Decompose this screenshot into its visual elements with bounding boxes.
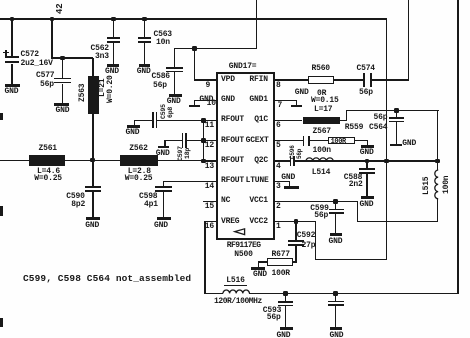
capacitor C595 6p8 (pin 11 series to gnd) (134, 120, 153, 121)
ground C562 (107, 64, 119, 67)
capacitor C588 2n2 (366, 161, 367, 169)
capacitor (unlabelled) (335, 294, 336, 301)
node C588 tap (365, 159, 370, 164)
pin label LTUNE (246, 177, 269, 185)
wire rail branch down at x52 (51, 19, 52, 58)
note text (23, 275, 191, 283)
capacitor C596 56p (series pin4) (290, 156, 291, 166)
pin label Q2C (254, 157, 268, 165)
inductor L516 120R/100MHz (223, 288, 250, 294)
ground C572 (5, 84, 20, 87)
inductor Z561 L=4.6 W=0.25 (29, 155, 65, 165)
pin 2 wire VCC1 (275, 201, 359, 202)
pin label VPD (221, 76, 235, 84)
resistor R560 0R (308, 76, 334, 84)
pin label VCC1 (249, 197, 267, 205)
ground C590 (86, 217, 100, 220)
wire VPD net vertical to top edge (256, 0, 257, 48)
ground C598 (157, 217, 171, 220)
pin 8 wire RFIN (275, 79, 308, 80)
resistor R559 100R (328, 137, 355, 144)
ground C597 (164, 140, 165, 146)
capacitor C563 10n (144, 19, 145, 38)
net label 42 (rotated, clipped at top) (56, 4, 64, 14)
pin label VREG (221, 218, 239, 226)
pin 6 wire Q1C (275, 120, 303, 121)
wire R559 to gnd (355, 140, 369, 141)
pin 11 stub (203, 120, 216, 121)
wire C564 corner down to L515 (437, 110, 438, 170)
ground R677 (251, 267, 264, 270)
pin 1 wire VCC2 (275, 221, 316, 222)
pin label RFOUT 14 (221, 177, 244, 185)
wire VCC1 corner down (357, 201, 358, 221)
pin label GCEXT (246, 137, 269, 145)
ground C593 (280, 327, 293, 330)
pin 10 stub with ground (194, 100, 216, 101)
node C599 tap (333, 199, 338, 204)
node C564 tap (394, 108, 399, 113)
capacitor C599 56p (335, 202, 336, 210)
pin label RFOUT 11 (221, 116, 244, 124)
wire Q1C node horizontal y110 (346, 110, 439, 111)
wire pin4 line to L515 (295, 160, 439, 161)
pin 7 stub GND1 (275, 100, 297, 101)
wire C592 bottom to R677 (293, 261, 297, 262)
ground C595 (134, 120, 135, 126)
ground C563 (139, 64, 151, 67)
pin 12 stub (203, 140, 216, 141)
wire Z567 jog up (340, 120, 348, 121)
wire left rf line (0, 160, 29, 161)
wire R560 to C574 (334, 79, 363, 80)
wire VCC2 horizontal y260 (315, 259, 387, 260)
pin 4 wire Q2C (275, 160, 291, 161)
node pin11 (201, 118, 206, 123)
wire right edge riser x458 (457, 0, 459, 294)
wire C574 to corner up (372, 79, 409, 80)
capacitor C597 18p (pin 12 series to gnd) (164, 140, 183, 141)
wire top supply rail (0, 18, 387, 20)
pin label VCC2 (249, 218, 267, 226)
wire horizontal y58 (51, 57, 93, 58)
inductor L515 100n (vertical) (433, 170, 439, 200)
capacitor 100n (series pin5) (303, 136, 305, 147)
node pin12 (201, 138, 206, 143)
wire bottom rail left of L516 (204, 293, 223, 294)
edge smudge marks (0, 113, 3, 120)
pin label RFIN (249, 76, 267, 84)
pin label Q1C (254, 116, 268, 124)
node C592 tap (294, 219, 299, 224)
wire R677 left to gnd (258, 261, 268, 262)
capacitor C562 3n3 (113, 19, 114, 38)
pin label NC (221, 197, 230, 205)
pin 9 stub (194, 79, 216, 80)
ground C588 (361, 196, 374, 199)
wire VPD down to pin 9 (194, 48, 195, 80)
node rail-C563 (142, 17, 147, 22)
pin label RFOUT 13 (221, 157, 244, 165)
ground pin3 (289, 181, 290, 187)
ground C586 (169, 94, 181, 97)
wire cap to R559 (310, 140, 328, 141)
inductor L514 (306, 156, 334, 162)
ground cap2 (330, 327, 342, 330)
wire L515 bottom (437, 198, 438, 222)
pin 3 stub LTUNE (275, 181, 291, 182)
wire VPD net horizontal y48 (174, 48, 257, 49)
wire VCC1 horizontal y221 to L515 bottom (357, 221, 438, 222)
node C577 tap (60, 56, 65, 61)
node pin13 (201, 159, 206, 164)
capacitor C586 56p (174, 48, 175, 67)
wire Z561 to junction (65, 160, 120, 161)
node rail-C562 (111, 17, 116, 22)
node Z561-Z562-C590 (90, 158, 95, 163)
capacitor C593 56p (285, 294, 286, 301)
pin 13 stub (203, 160, 216, 161)
node pin4-vcc vertical crossing (384, 159, 389, 164)
wire RFIN riser to top edge (408, 0, 409, 81)
wire bottom rail (249, 293, 459, 294)
node rail-branch42 (50, 17, 55, 22)
inductor Z563 L=21 W=0.20 (vertical strip) (88, 76, 99, 114)
capacitor C590 8p2 (92, 161, 93, 187)
op-amp U1 : IC N500 RF9117 body (216, 72, 275, 240)
capacitor C572 2u2_16V electrolytic (11, 19, 12, 57)
wire RFOUT bus 11-12-13 (203, 120, 204, 162)
node C593 tap (283, 291, 288, 296)
pin 5 stub GCEXT (275, 140, 304, 141)
pin label RFOUT 12 (221, 137, 244, 145)
inductor Z562 L=2.8 W=0.25 (120, 155, 157, 165)
wire Z562 to pin 13 (158, 160, 204, 161)
node bottom cap2 tap (333, 291, 338, 296)
pin 16 wire (204, 221, 215, 222)
ground C599 (330, 233, 342, 236)
wire VREG corner down x205 (204, 221, 205, 294)
pin 1 indicator triangle (234, 228, 246, 236)
capacitor C577 56p (62, 58, 63, 78)
node VPD branch (192, 46, 197, 51)
ground C564 (390, 144, 402, 147)
pin 14 wire (163, 181, 216, 182)
resistor R677 100R (267, 258, 293, 266)
node rail-C572 (10, 17, 15, 22)
ground C577 (54, 103, 69, 106)
capacitor C598 4p1 (pin 14 to gnd) (163, 181, 164, 187)
inductor Z567 W=0.15 L=17 (303, 117, 340, 124)
wire Z563 bottom to junction (92, 114, 93, 162)
wire VCC riser x386 (rail to y260) (386, 19, 387, 261)
wire VCC2 corner down x315 (315, 221, 316, 260)
capacitor C574 56p (series) (363, 73, 365, 87)
ground pin7 (296, 100, 297, 105)
wire down to Z563 top (92, 58, 93, 76)
capacitor C564 56p (396, 110, 397, 117)
pin label GND (221, 96, 235, 104)
pin label GND1 (249, 96, 267, 104)
ground R559 (361, 145, 374, 148)
capacitor C592 27p (295, 221, 296, 241)
pin 15 stub NC (203, 201, 216, 202)
node L515 top (435, 159, 440, 164)
